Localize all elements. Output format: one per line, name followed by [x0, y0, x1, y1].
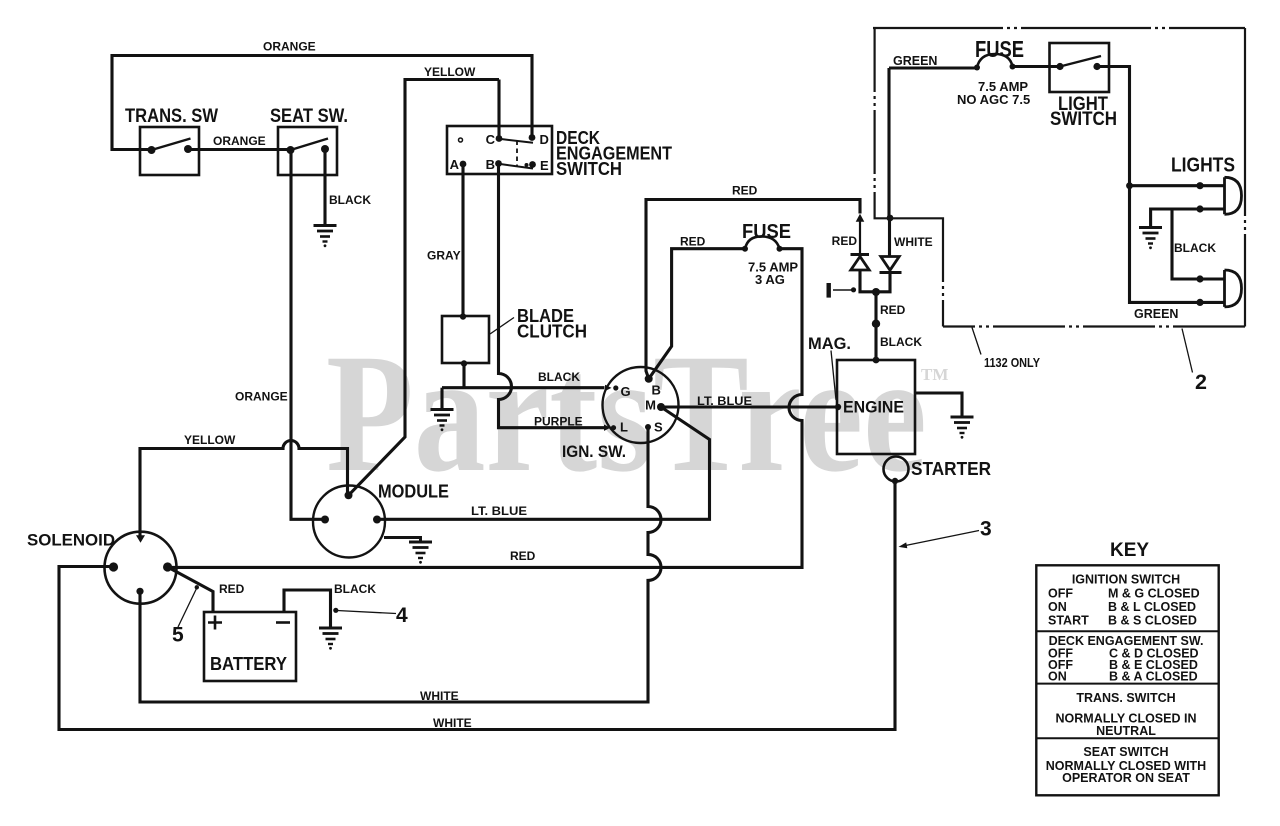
- wire GREEN horizontal to fuse: [889, 66, 977, 69]
- seat switch SEAT SW.: [278, 127, 337, 175]
- wire BLACK lamp1 to lamp2: [1172, 209, 1225, 279]
- battery box: [204, 612, 296, 681]
- svg-text:B & A CLOSED: B & A CLOSED: [1109, 670, 1198, 684]
- watermark PartsTree: [326, 320, 948, 508]
- svg-text:ON: ON: [1048, 670, 1067, 684]
- wire light switch to lamps: [1097, 67, 1225, 303]
- svg-text:SEAT SW.: SEAT SW.: [270, 106, 348, 127]
- svg-text:B: B: [652, 383, 661, 398]
- ground seat switch: [314, 226, 337, 248]
- wire BLACK battery negative to ground: [284, 590, 331, 628]
- wire WHITE starter to solenoid left: [59, 481, 895, 730]
- ground battery: [319, 628, 342, 650]
- svg-text:ORANGE: ORANGE: [263, 40, 316, 54]
- svg-text:C: C: [486, 132, 496, 147]
- wire YELLOW solenoid to module (hop over orange): [140, 441, 348, 536]
- svg-text:D: D: [540, 132, 549, 147]
- key table text: [1046, 573, 1206, 786]
- svg-text:TM: TM: [921, 365, 948, 384]
- wire deck B to ign L PURPLE (hop over black): [499, 164, 605, 428]
- svg-text:OPERATOR ON SEAT: OPERATOR ON SEAT: [1062, 771, 1190, 785]
- svg-text:FUSE: FUSE: [975, 36, 1024, 62]
- svg-text:CLUTCH: CLUTCH: [517, 321, 587, 342]
- svg-text:M: M: [645, 398, 656, 413]
- svg-text:ORANGE: ORANGE: [213, 134, 266, 148]
- module: [313, 486, 385, 558]
- svg-text:ON: ON: [1048, 600, 1067, 614]
- svg-text:GRAY: GRAY: [427, 249, 461, 263]
- svg-text:IGN. SW.: IGN. SW.: [562, 442, 626, 461]
- svg-text:GREEN: GREEN: [1134, 307, 1178, 321]
- svg-text:NO AGC 7.5: NO AGC 7.5: [957, 92, 1030, 107]
- svg-text:OFF: OFF: [1048, 587, 1073, 601]
- engine box: [831, 351, 915, 455]
- wire diode junction to engine top: [860, 270, 890, 360]
- svg-text:5: 5: [172, 624, 184, 647]
- svg-text:BLACK: BLACK: [1174, 241, 1216, 255]
- wire YELLOW deck C loop to module: [349, 80, 500, 496]
- svg-text:SWITCH: SWITCH: [556, 158, 622, 179]
- ground engine: [951, 417, 974, 439]
- ground blade clutch: [431, 410, 454, 432]
- wire RED outer loop ign B to diode: [646, 200, 860, 379]
- svg-text:NEUTRAL: NEUTRAL: [1096, 724, 1156, 738]
- svg-text:LIGHTS: LIGHTS: [1171, 155, 1235, 177]
- svg-text:4: 4: [396, 604, 408, 627]
- svg-text:WHITE: WHITE: [433, 716, 472, 730]
- svg-text:ORANGE: ORANGE: [235, 390, 288, 404]
- svg-text:G: G: [621, 384, 631, 399]
- svg-text:3: 3: [980, 518, 992, 541]
- wire fuse to light switch: [1013, 65, 1061, 68]
- wire engine to ground: [915, 393, 963, 417]
- callout line to 1132 only: [972, 328, 981, 355]
- node diode junction: [872, 288, 880, 296]
- wire ORANGE trans-seat: [188, 148, 291, 151]
- svg-text:TRANS. SW: TRANS. SW: [125, 106, 218, 127]
- solenoid: [105, 532, 177, 604]
- callout line 5: [178, 585, 199, 627]
- svg-text:RED: RED: [219, 582, 245, 596]
- svg-text:STARTER: STARTER: [911, 459, 991, 479]
- svg-text:M & G CLOSED: M & G CLOSED: [1108, 587, 1200, 601]
- svg-text:PURPLE: PURPLE: [534, 415, 583, 429]
- svg-text:LT. BLUE: LT. BLUE: [471, 504, 527, 518]
- wire white diode top: [888, 218, 891, 256]
- svg-text:WHITE: WHITE: [894, 235, 933, 249]
- svg-text:B & L CLOSED: B & L CLOSED: [1108, 600, 1196, 614]
- wire lamp1 feed: [1130, 184, 1225, 187]
- wire lamp1 to ground: [1151, 209, 1225, 228]
- svg-text:SOLENOID: SOLENOID: [27, 532, 115, 550]
- callout line to 2: [1182, 329, 1193, 373]
- svg-text:BLACK: BLACK: [334, 582, 376, 596]
- svg-text:KEY: KEY: [1110, 540, 1149, 561]
- module ground wire: [384, 538, 421, 543]
- svg-text:3 AG: 3 AG: [755, 272, 785, 287]
- starter circle: [884, 457, 909, 485]
- blade clutch box: [442, 313, 514, 366]
- svg-text:B: B: [486, 157, 495, 172]
- svg-text:YELLOW: YELLOW: [184, 433, 236, 447]
- wire GREEN vertical: [887, 68, 890, 218]
- svg-text:MODULE: MODULE: [378, 481, 449, 502]
- wire ORANGE top (trans.sw to deck D): [112, 56, 532, 150]
- dash-dot option box 1132 only: [873, 28, 1245, 327]
- wire RED fuse to ign B: [649, 249, 745, 379]
- svg-text:L: L: [620, 420, 628, 435]
- svg-text:2: 2: [1195, 370, 1207, 394]
- wire RED solenoid to fuse loop: [168, 249, 802, 568]
- callout line 4: [333, 608, 396, 614]
- svg-text:FUSE: FUSE: [742, 220, 791, 243]
- svg-text:BLACK: BLACK: [329, 193, 371, 207]
- svg-text:RED: RED: [510, 549, 536, 563]
- svg-text:BATTERY: BATTERY: [210, 653, 288, 674]
- transmission switch TRANS. SW: [140, 127, 199, 175]
- svg-text:YELLOW: YELLOW: [424, 65, 476, 79]
- fuse 7.5 agc arc: [977, 54, 1013, 68]
- svg-text:IGNITION SWITCH: IGNITION SWITCH: [1072, 573, 1180, 587]
- svg-text:BLACK: BLACK: [538, 370, 580, 384]
- svg-text:1132 ONLY: 1132 ONLY: [984, 355, 1040, 370]
- callout line 3 with arrow: [899, 531, 980, 549]
- svg-text:BLACK: BLACK: [880, 335, 922, 349]
- ground lights: [1139, 228, 1162, 250]
- svg-text:SWITCH: SWITCH: [1050, 109, 1117, 130]
- node red/black splice: [872, 320, 880, 328]
- svg-text:E: E: [540, 158, 549, 173]
- svg-text:MAG.: MAG.: [808, 334, 851, 353]
- label 1: [827, 283, 831, 298]
- svg-text:RED: RED: [832, 234, 858, 248]
- light switch box: [1050, 43, 1110, 92]
- ground module: [409, 542, 432, 564]
- wire blade ground riser: [440, 388, 443, 410]
- svg-text:S: S: [654, 420, 663, 435]
- fuse 3AG arc: [745, 236, 780, 248]
- wire LT. BLUE module to ign M: [377, 407, 710, 519]
- svg-text:WHITE: WHITE: [420, 689, 459, 703]
- wire ORANGE seat to module: [291, 150, 325, 519]
- callout pointer 1: [833, 287, 856, 292]
- svg-text:ENGINE: ENGINE: [843, 398, 904, 417]
- wire seat sw to ground: [323, 149, 326, 226]
- svg-text:TRANS. SWITCH: TRANS. SWITCH: [1076, 691, 1175, 705]
- deck engagement switch: [447, 126, 552, 174]
- node lights feed junction: [1126, 182, 1133, 189]
- wire GRAY deck A to blade clutch: [461, 164, 464, 317]
- wire blade clutch bottom drop: [462, 364, 465, 388]
- svg-text:GREEN: GREEN: [893, 54, 937, 68]
- svg-text:RED: RED: [680, 235, 706, 249]
- svg-text:START: START: [1048, 614, 1089, 628]
- svg-text:A: A: [450, 157, 460, 172]
- diode D-white: [880, 257, 902, 273]
- key table: [1036, 565, 1218, 795]
- svg-text:RED: RED: [732, 184, 758, 198]
- svg-text:RED: RED: [880, 303, 906, 317]
- wire red diode riser thin: [859, 222, 861, 255]
- node green/white diode: [887, 215, 894, 222]
- lamp lower: [1196, 270, 1241, 307]
- wire LT. BLUE ign M to engine: [661, 405, 837, 408]
- svg-text:SEAT SWITCH: SEAT SWITCH: [1083, 745, 1168, 759]
- wire RED solenoid to battery: [168, 567, 213, 612]
- svg-text:B & S CLOSED: B & S CLOSED: [1108, 614, 1197, 628]
- ignition switch IGN. SW.: [603, 367, 679, 443]
- svg-text:LT. BLUE: LT. BLUE: [697, 394, 752, 408]
- diode D-red: [851, 214, 870, 270]
- wire BLACK blade clutch to ign G: [442, 386, 605, 389]
- wire WHITE ign S to solenoid bottom: [140, 427, 661, 702]
- lamp upper: [1196, 177, 1241, 214]
